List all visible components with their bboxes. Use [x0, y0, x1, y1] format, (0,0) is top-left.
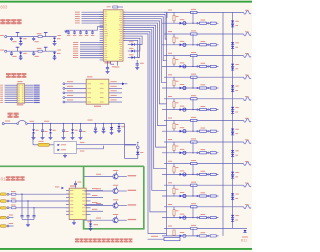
ground right of U1 [135, 67, 139, 69]
comm pad P3 [0, 207, 6, 210]
net label input row 1 right [58, 34, 61, 37]
U1 pin name text columns [104, 12, 122, 61]
box row 2 input wire [84, 190, 112, 192]
U1 reference label [105, 62, 112, 63]
capacitor C1 [11, 37, 13, 39]
wire joining diodes [139, 45, 141, 58]
inductor L1 [38, 143, 50, 146]
transistor Q43 [113, 218, 118, 223]
comm wire 1 [9, 193, 69, 195]
decoupling capacitor C11 [74, 30, 76, 32]
U2 left pin wire 2 [65, 87, 86, 89]
U2 left pin wire 5 [65, 101, 86, 103]
junction cap right 1 [95, 123, 96, 124]
section divider green line [0, 165, 144, 167]
U3 output wire 2 [77, 148, 104, 150]
section label 电池通道 [6, 73, 26, 78]
U1 pin numbers right [124, 12, 126, 41]
decoupling capacitor C13 [86, 30, 88, 32]
capacitor C21 [136, 60, 138, 64]
resistor R1 [38, 36, 42, 38]
ground row 2 left [19, 57, 23, 59]
comm series resistor R42 [12, 207, 16, 209]
LED return wire [125, 158, 138, 160]
U4 internal pin text [70, 190, 85, 215]
box row 3 input wire [84, 205, 112, 207]
resistor R3 [38, 50, 42, 52]
isolator U2 body [86, 79, 109, 104]
comm wire 2 [9, 200, 69, 202]
box row 3 output wire [118, 205, 127, 207]
comm filter capacitor C42 [33, 207, 34, 208]
bottom resistor R50 [148, 238, 165, 240]
VCC bar row 2 right [45, 47, 47, 51]
switch labels [5, 120, 10, 123]
ground row 1 left [19, 42, 23, 44]
switch SW1 symbol [17, 123, 19, 125]
VCC bar row 1 right [45, 33, 47, 37]
U2 left pin wire 3 [65, 92, 86, 94]
box row 1 output wire [118, 175, 127, 177]
switch branch at x=72.5 [72, 123, 73, 124]
ground below U1 [106, 71, 110, 73]
transistor Q41 [113, 188, 118, 193]
net label input row 2 right [58, 49, 61, 52]
capacitor C2 [33, 37, 35, 39]
ground row 1 right [53, 42, 57, 44]
section label 开关 [8, 113, 19, 118]
U2 left pin wire 4 [65, 96, 86, 98]
input row 1 net label left [0, 34, 4, 37]
diode below U4 [88, 220, 92, 223]
svg-text:1603: 1603 [0, 5, 8, 10]
box row 1 collector stub [116, 172, 118, 174]
diode D15 on switch wire [111, 123, 112, 124]
svg-text:B11: B11 [241, 239, 247, 243]
components above U1 [107, 5, 111, 8]
U4 right pin stubs [86, 190, 103, 192]
channel row 2 [162, 31, 251, 56]
diode D14 vertical [118, 123, 119, 124]
decoupling capacitor C12 [80, 30, 82, 32]
box row 3 collector stub [116, 201, 118, 203]
channel row 3 [162, 52, 251, 77]
VCC bar row 1 left [17, 33, 19, 37]
sheet border top [0, 1, 252, 3]
decoupling capacitor C14 [92, 30, 94, 32]
ground below U4 [73, 220, 75, 223]
box row 2 output wire [118, 190, 127, 192]
channel row 1 [162, 9, 251, 34]
J2 top label [18, 80, 23, 83]
box row 1 input wire [84, 175, 112, 177]
U4 reference label [70, 186, 76, 187]
arrow on U2 pin wire [122, 82, 125, 85]
TVS diode D6 [54, 51, 56, 52]
ground row 2 right [53, 57, 57, 59]
diode D13 [128, 57, 132, 59]
switch branch at x=33.5 [33, 123, 34, 124]
comm pad lower [0, 225, 6, 228]
box row 4 input wire [84, 219, 112, 221]
U2 internal pin text [87, 83, 103, 102]
decoupling capacitor C10 [68, 30, 70, 32]
channel row 4 [162, 74, 251, 99]
U2 left pin wire 1 [65, 83, 86, 85]
U2 reference labels [87, 75, 92, 78]
box row 2 collector stub [116, 186, 118, 188]
MCU U1 body [103, 10, 123, 61]
capacitor C6 [33, 51, 35, 53]
channel row 7 [162, 139, 251, 164]
channel row 10 [162, 203, 251, 228]
U1 left net wires lower [80, 42, 103, 44]
decoupling cap rail [66, 29, 98, 31]
input row 2 pin [5, 50, 7, 52]
J2 left pin wires [0, 85, 3, 103]
capacitor C20 below U1 [106, 67, 109, 69]
sheet border bottom [0, 248, 252, 250]
isolator U4 body [69, 188, 86, 219]
U2 right pin wire 2 [109, 87, 122, 89]
comm pad lower [0, 216, 6, 219]
box row 4 output wire [118, 219, 127, 221]
comm pad P2 [0, 200, 6, 203]
switch main wire [2, 123, 4, 125]
comm series resistor R41 [12, 200, 16, 202]
channel row 5 [162, 95, 251, 120]
U2 right pin wire 4 [109, 96, 122, 98]
diode D11 [128, 44, 132, 46]
channel row 9 [162, 182, 251, 207]
U2 right pin wire 5 [109, 101, 122, 103]
transistor Q42 [113, 203, 118, 208]
TVS diode D5 [20, 51, 22, 52]
switch branch at x=80.5 [80, 123, 81, 124]
section label 电压输入端 [0, 19, 22, 24]
U1 left net wires upper [82, 11, 104, 13]
comm series resistor R40 [12, 193, 16, 195]
wire fan from U1 to channel rows [123, 12, 167, 17]
input row 1 pin [5, 36, 7, 38]
U2 right pin wire 1 [109, 83, 122, 85]
zener label on switch wire [88, 119, 93, 122]
TVS diode D2 [54, 37, 56, 38]
U1 bottom stubs [107, 61, 109, 67]
comm filter capacitor C41 [27, 200, 28, 201]
green annotation box [84, 166, 144, 229]
channel row 11 [162, 225, 248, 238]
switch branch at x=63.5 [63, 123, 64, 124]
stub right below U1 [117, 61, 119, 65]
U3 ground [64, 153, 66, 155]
regulator U3 body [54, 142, 77, 154]
input row 1 wire [7, 36, 57, 38]
J2 right pin wires with blue net labels [34, 85, 40, 103]
switch branch at x=50.5 [50, 123, 51, 124]
components above U4 [55, 186, 59, 189]
note text 注意：下次想加均衡电阻整修 [75, 238, 132, 242]
input row 2 net label left [0, 49, 4, 52]
transistor Q40 [113, 174, 118, 179]
J2 reference label [17, 104, 23, 105]
comm caps ground [22, 219, 34, 221]
capacitor C5 [11, 51, 13, 53]
comm pad P1 [0, 193, 6, 196]
VCC bar row 2 left [17, 47, 19, 51]
U4 left pin stubs [66, 190, 69, 192]
channel row 8 [162, 160, 251, 185]
svg-text:1401: 1401 [0, 177, 6, 182]
LED indicator circuit [124, 124, 126, 159]
rail ground [64, 30, 67, 32]
U2 right pin wire 3 [109, 92, 122, 94]
diode D12 [128, 50, 132, 52]
comm wire 3 [9, 207, 69, 209]
connector J2 body [17, 84, 24, 103]
U3 output wire 1 [77, 143, 137, 145]
J2 internal pin text [18, 85, 24, 103]
input row 2 wire [7, 50, 57, 52]
TVS diode D1 [20, 37, 22, 38]
U1 left pin stubs [100, 11, 104, 13]
switch branch at x=42.5 [42, 123, 43, 124]
channel row 6 [162, 117, 251, 142]
junction cap right 2 [103, 123, 104, 124]
U3 internal marks [58, 144, 60, 146]
comm filter capacitor C40 [21, 194, 22, 195]
box row 4 collector stub [116, 216, 118, 218]
